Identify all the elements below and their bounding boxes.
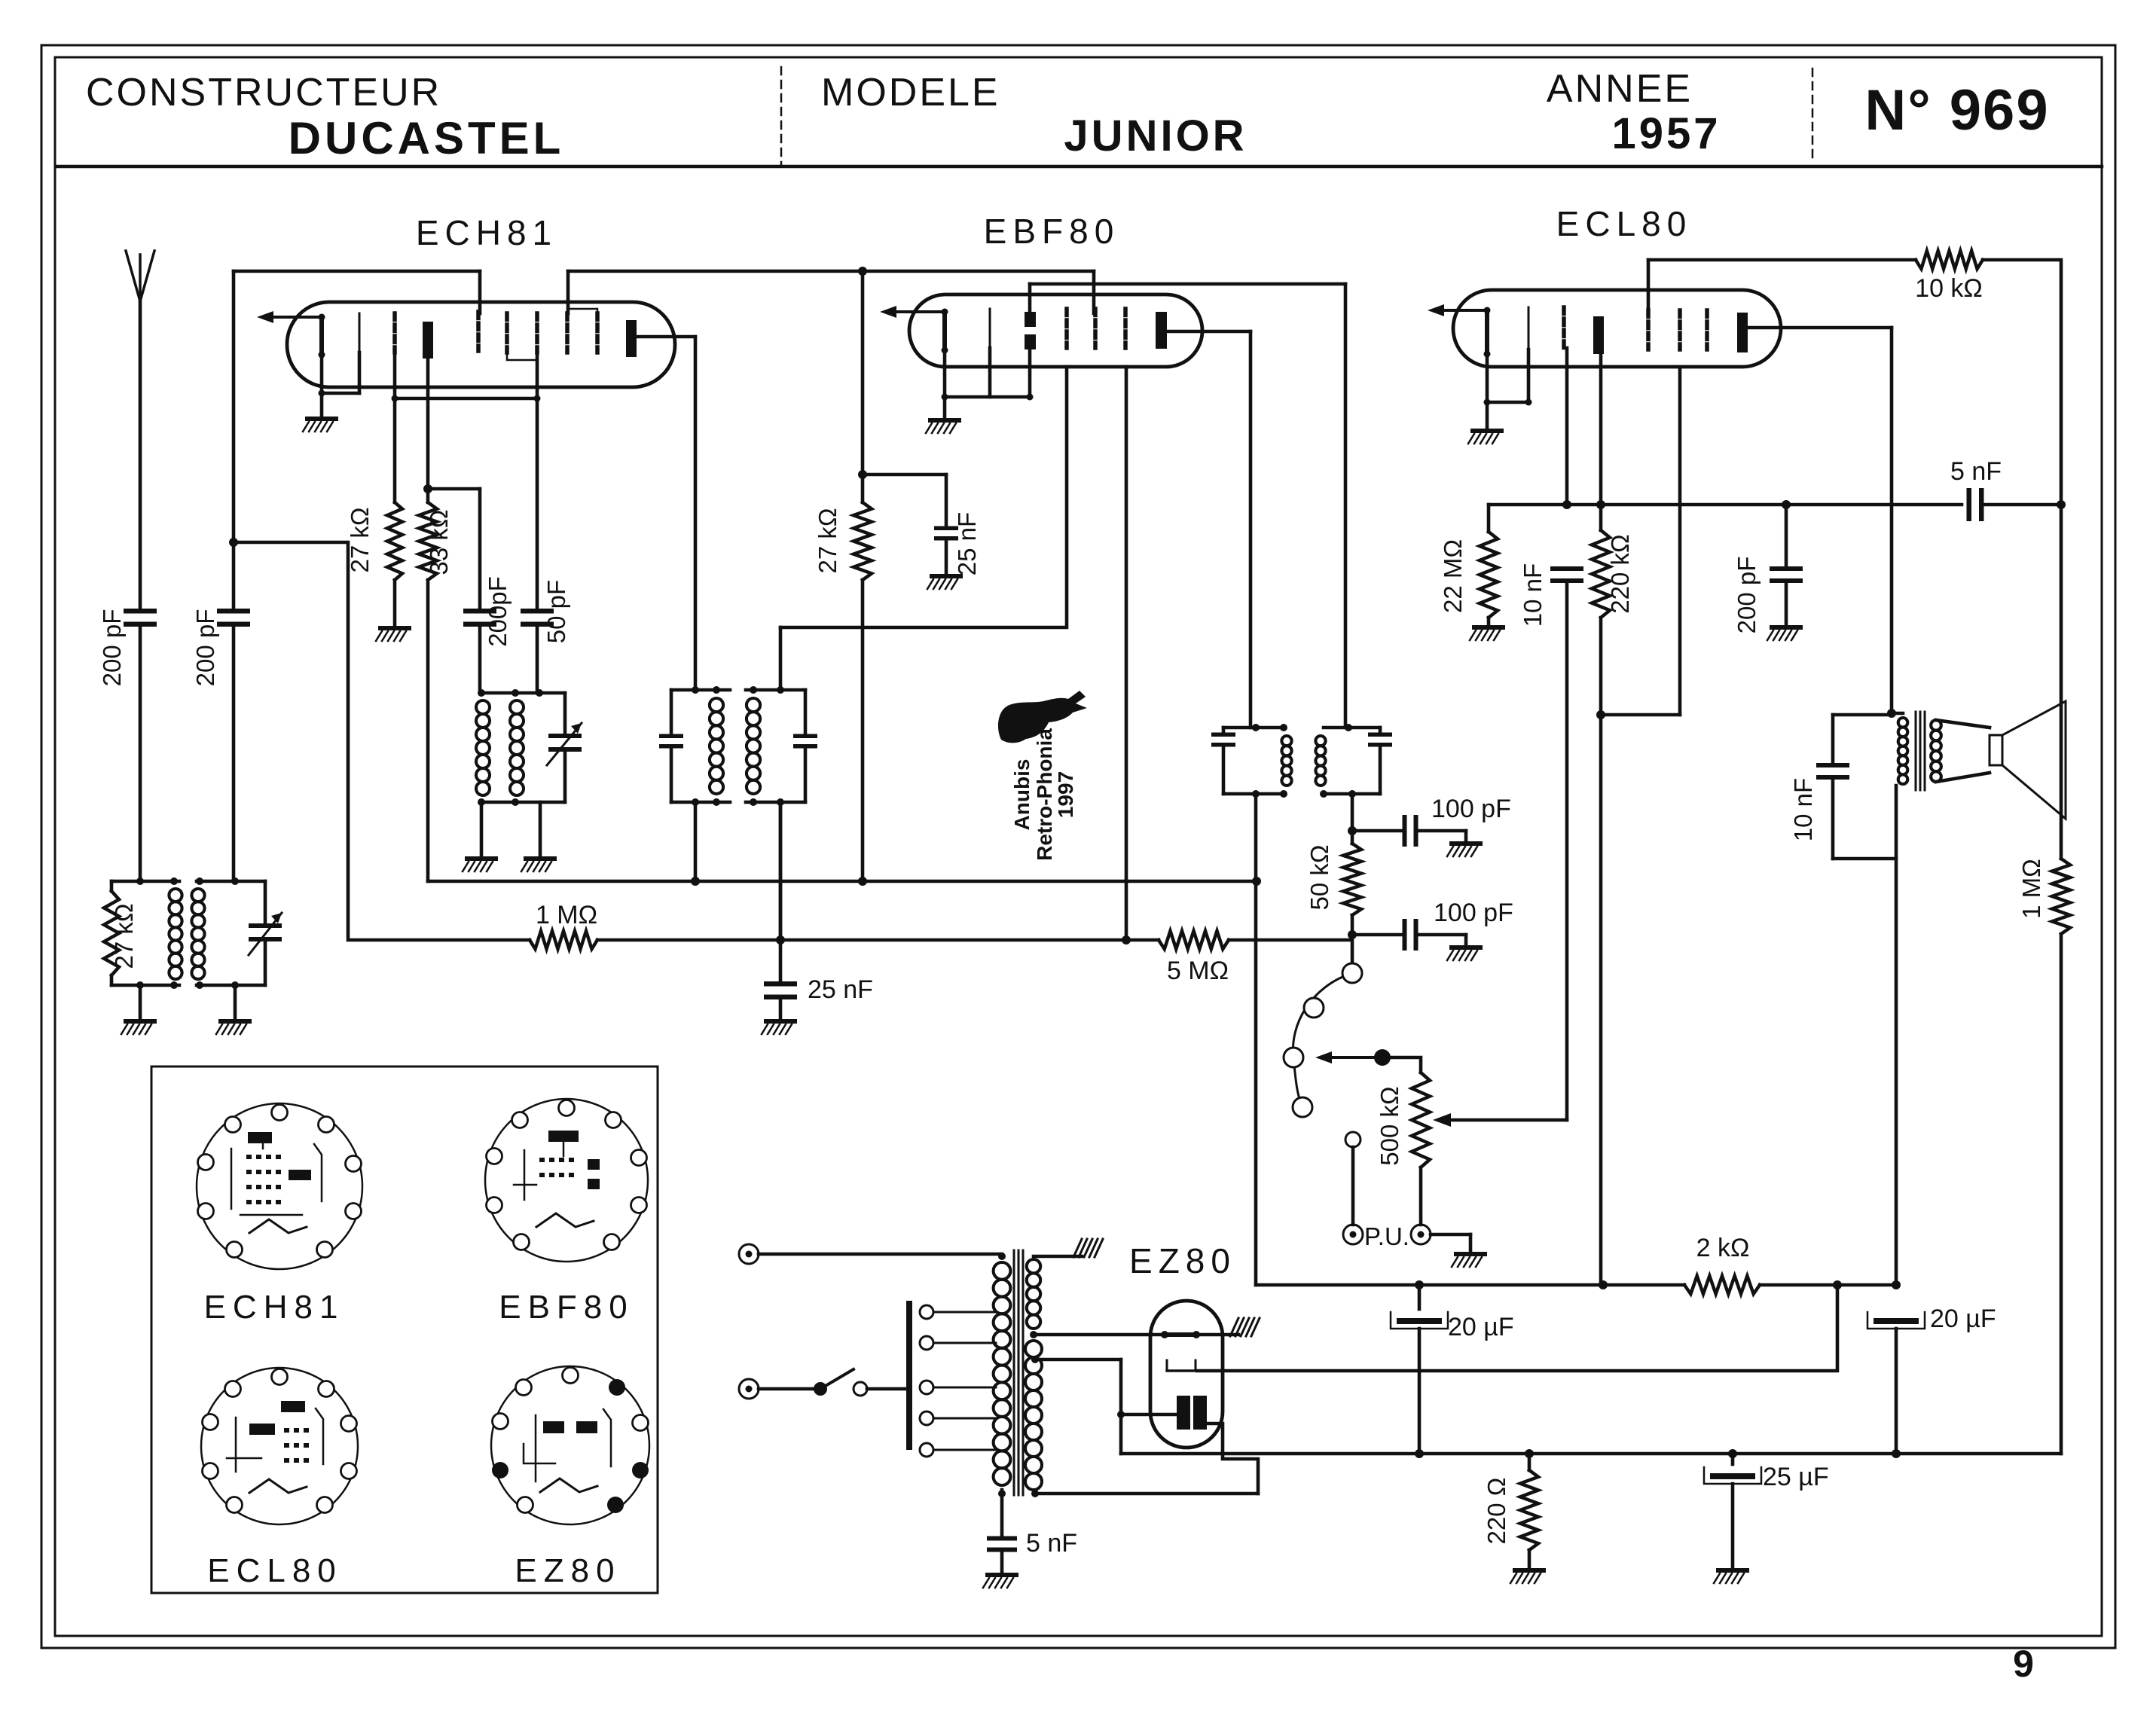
svg-text:33 kΩ: 33 kΩ <box>425 509 453 575</box>
svg-text:100 pF: 100 pF <box>1431 795 1511 823</box>
svg-text:DUCASTEL: DUCASTEL <box>289 113 565 163</box>
svg-text:10 nF: 10 nF <box>1789 778 1817 841</box>
svg-text:9: 9 <box>2013 1643 2034 1685</box>
svg-text:200 pF: 200 pF <box>98 609 126 687</box>
svg-text:25 nF: 25 nF <box>808 975 873 1004</box>
svg-text:10 kΩ: 10 kΩ <box>1915 274 1983 303</box>
svg-text:25 nF: 25 nF <box>953 512 981 575</box>
svg-text:200 pF: 200 pF <box>191 609 219 687</box>
svg-text:200 pF: 200 pF <box>1733 557 1761 634</box>
svg-text:2 kΩ: 2 kΩ <box>1696 1234 1750 1262</box>
svg-text:Retro-Phonia: Retro-Phonia <box>1033 728 1056 861</box>
svg-text:50 kΩ: 50 kΩ <box>1306 844 1333 910</box>
svg-text:ECL80: ECL80 <box>1556 204 1693 243</box>
svg-text:N° 969: N° 969 <box>1864 78 2049 142</box>
svg-text:5 nF: 5 nF <box>1026 1529 1077 1558</box>
svg-text:1997: 1997 <box>1054 771 1077 818</box>
svg-text:EBF80: EBF80 <box>984 212 1120 251</box>
svg-text:1957: 1957 <box>1611 109 1721 158</box>
svg-text:EZ80: EZ80 <box>1129 1241 1236 1280</box>
svg-text:JUNIOR: JUNIOR <box>1064 111 1247 160</box>
svg-text:ANNEE: ANNEE <box>1547 67 1693 111</box>
svg-text:ECH81: ECH81 <box>204 1289 345 1326</box>
svg-text:200pF: 200pF <box>484 576 512 647</box>
svg-text:25 µF: 25 µF <box>1763 1463 1829 1491</box>
svg-text:27 kΩ: 27 kΩ <box>346 507 374 572</box>
svg-text:CONSTRUCTEUR: CONSTRUCTEUR <box>86 71 441 114</box>
svg-text:50 pF: 50 pF <box>542 580 570 643</box>
svg-text:500 kΩ: 500 kΩ <box>1376 1086 1403 1165</box>
svg-text:100 pF: 100 pF <box>1434 899 1513 927</box>
svg-text:EZ80: EZ80 <box>515 1552 621 1589</box>
svg-text:P.U.: P.U. <box>1364 1222 1409 1250</box>
svg-text:5 nF: 5 nF <box>1950 457 2002 486</box>
svg-text:Anubis: Anubis <box>1010 759 1034 831</box>
svg-text:27 kΩ: 27 kΩ <box>814 508 841 573</box>
svg-text:EBF80: EBF80 <box>499 1289 634 1326</box>
svg-text:ECL80: ECL80 <box>207 1552 343 1589</box>
svg-text:5 MΩ: 5 MΩ <box>1167 957 1229 985</box>
svg-text:27 kΩ: 27 kΩ <box>110 903 138 969</box>
svg-text:1 MΩ: 1 MΩ <box>2017 859 2045 919</box>
svg-text:220 kΩ: 220 kΩ <box>1606 534 1634 613</box>
svg-text:1 MΩ: 1 MΩ <box>536 901 597 929</box>
svg-text:20 µF: 20 µF <box>1930 1305 1996 1333</box>
svg-text:MODELE: MODELE <box>821 71 1000 114</box>
svg-text:ECH81: ECH81 <box>416 213 557 252</box>
svg-text:220 Ω: 220 Ω <box>1483 1478 1510 1545</box>
svg-text:10 nF: 10 nF <box>1519 563 1547 627</box>
svg-text:20 µF: 20 µF <box>1448 1313 1514 1341</box>
svg-text:22 MΩ: 22 MΩ <box>1439 539 1467 613</box>
